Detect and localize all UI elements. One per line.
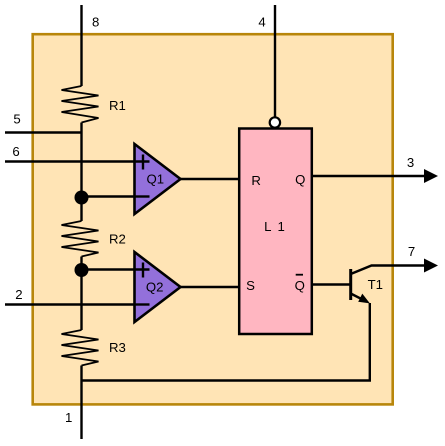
svg-text:R1: R1 bbox=[109, 98, 126, 113]
wire: Q1 output to latch R input bbox=[180, 178, 239, 180]
svg-text:R: R bbox=[251, 173, 261, 188]
svg-text:6: 6 bbox=[12, 144, 19, 159]
reset bubble on latch bbox=[270, 117, 280, 127]
svg-text:Q1: Q1 bbox=[147, 172, 165, 187]
svg-text:S: S bbox=[246, 278, 255, 293]
svg-text:Q: Q bbox=[295, 172, 305, 187]
resistor R1 bbox=[62, 86, 99, 123]
wire: pin 6 input to Q1 + bbox=[5, 160, 150, 162]
wire: Q2 output to latch S input bbox=[180, 286, 239, 288]
pin 3 arrowhead bbox=[424, 169, 438, 183]
Q2 minus stub bbox=[136, 303, 150, 305]
wire: pin 2 input to Q2 - bbox=[5, 303, 150, 305]
svg-text:7: 7 bbox=[408, 244, 415, 259]
svg-text:4: 4 bbox=[258, 15, 265, 30]
Q2 plus sign bbox=[136, 263, 150, 278]
transistor T1 base bar bbox=[349, 269, 352, 300]
svg-text:Q: Q bbox=[295, 278, 305, 293]
svg-text:8: 8 bbox=[92, 15, 99, 30]
node junction R1/R2 (dot) bbox=[75, 191, 89, 205]
latch L1 (flip-flop box) bbox=[239, 129, 312, 335]
svg-text:R2: R2 bbox=[109, 231, 126, 246]
svg-text:5: 5 bbox=[13, 111, 20, 126]
wire: emitter return to ground rail bbox=[82, 303, 370, 381]
svg-text:3: 3 bbox=[407, 155, 414, 170]
svg-text:L 1: L 1 bbox=[264, 219, 286, 234]
transistor T1 collector bbox=[351, 266, 425, 275]
wire: pin 4 vertical bbox=[274, 5, 276, 117]
svg-text:2: 2 bbox=[15, 287, 22, 302]
wire: pin 8 / resistor chain / pin 1 vertical bbox=[80, 5, 82, 439]
wire: latch Q output to pin 3 bbox=[312, 175, 425, 177]
node junction R2/R3 (dot) bbox=[75, 263, 89, 277]
svg-text:R3: R3 bbox=[109, 340, 126, 355]
Q1 minus stub bbox=[136, 195, 150, 197]
Qbar overbar bbox=[296, 274, 303, 276]
op-amp Q1 (comparator) bbox=[135, 144, 181, 214]
resistor R2 bbox=[62, 221, 99, 257]
pin 7 arrowhead bbox=[424, 259, 438, 273]
wire: junction to Q1 - input bbox=[82, 195, 150, 197]
transistor T1 emitter with arrow bbox=[351, 294, 365, 301]
wire: pin 5 input bbox=[5, 131, 82, 133]
wire: latch Qbar output to T1 base bbox=[312, 283, 351, 285]
emitter arrowhead bbox=[358, 294, 370, 304]
resistor R3 bbox=[62, 330, 99, 366]
wire: junction to Q2 + input bbox=[82, 268, 150, 270]
Q1 plus sign bbox=[136, 155, 150, 170]
IC body U1 (555 outline) bbox=[33, 34, 393, 404]
svg-text:1: 1 bbox=[65, 410, 72, 425]
op-amp Q2 (comparator) bbox=[135, 252, 181, 322]
svg-text:T1: T1 bbox=[368, 277, 383, 292]
svg-text:Q2: Q2 bbox=[146, 280, 164, 295]
